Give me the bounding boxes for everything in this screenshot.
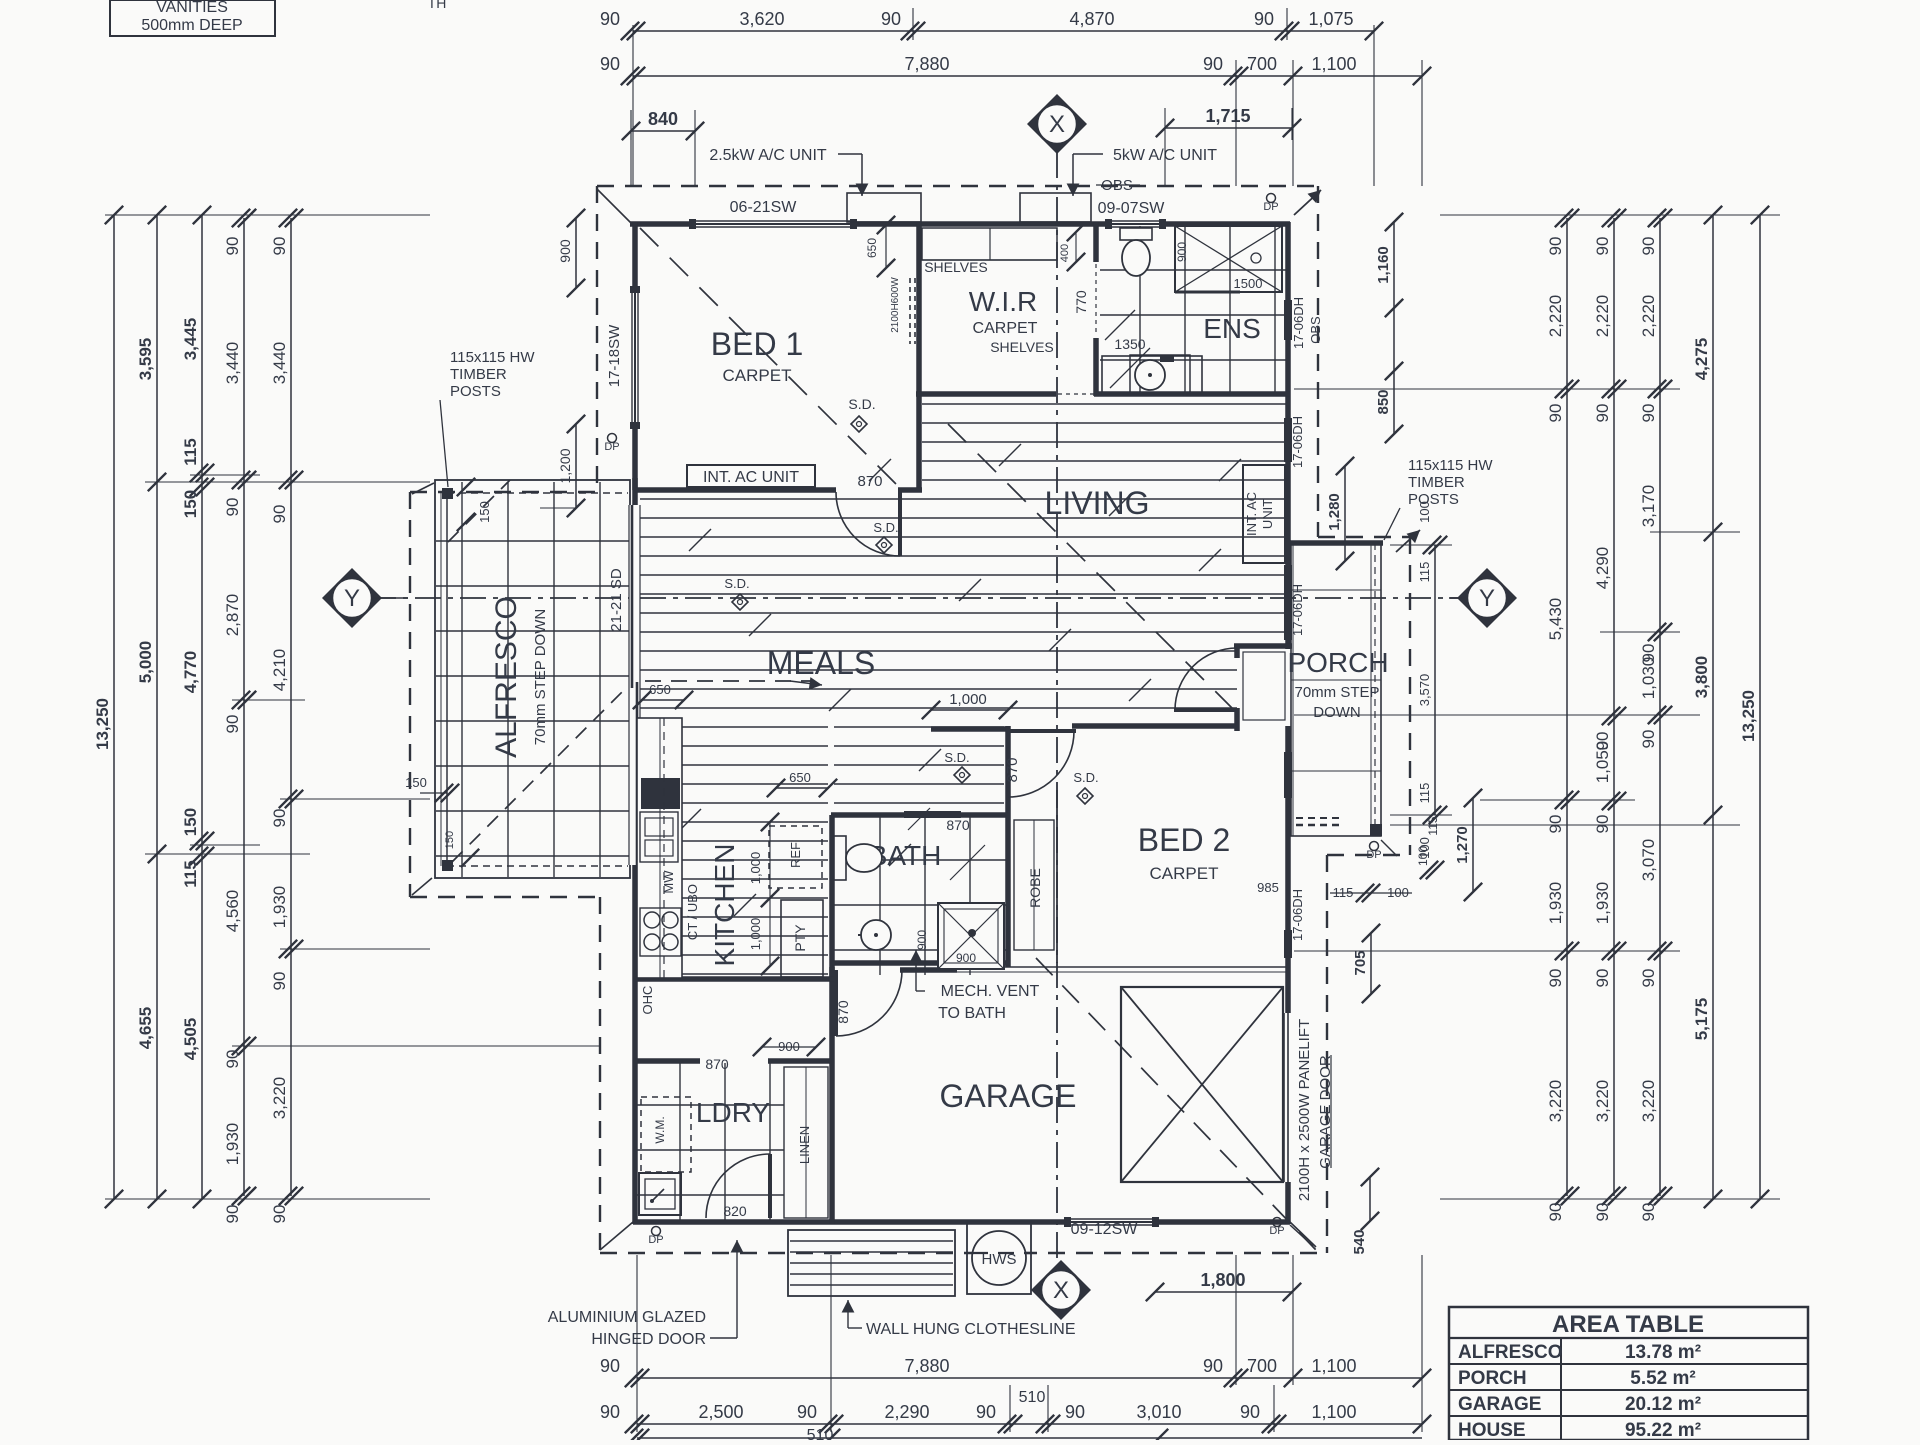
- wall left meals-kitchen-ldry: [632, 478, 638, 1224]
- svg-text:W.M.: W.M.: [653, 1116, 667, 1143]
- dp top right: [1267, 194, 1276, 203]
- wall right upper: [1285, 222, 1291, 543]
- svg-text:WALL HUNG CLOTHESLINE: WALL HUNG CLOTHESLINE: [866, 1321, 1076, 1338]
- svg-text:90: 90: [1203, 1356, 1223, 1376]
- meals bulkhead dashed: [645, 680, 814, 682]
- bottom dim row1: [637, 1377, 1422, 1379]
- bath tile grid: [834, 817, 1006, 975]
- svg-text:AREA TABLE: AREA TABLE: [1552, 1311, 1704, 1338]
- svg-text:90: 90: [1240, 1402, 1260, 1422]
- wall bath west / garage west: [829, 815, 835, 981]
- living diagonal dashed: [948, 424, 1233, 709]
- left dim col1 13250: [113, 215, 115, 1199]
- clothesline: [788, 1230, 955, 1296]
- right 1280 dim: [1344, 466, 1346, 561]
- svg-text:985: 985: [1257, 880, 1279, 895]
- svg-text:3,070: 3,070: [1639, 839, 1658, 882]
- ens vanity: [1102, 356, 1202, 394]
- svg-text:5,175: 5,175: [1692, 998, 1711, 1041]
- svg-text:90: 90: [270, 972, 289, 991]
- svg-text:4,275: 4,275: [1692, 338, 1711, 381]
- svg-text:1500: 1500: [1234, 276, 1263, 291]
- alfresco roof diagonal 2: [448, 480, 510, 542]
- svg-text:90: 90: [223, 1205, 242, 1224]
- alfresco grid: [436, 482, 629, 877]
- svg-text:100: 100: [1417, 501, 1432, 523]
- window 09-07SW: [1107, 220, 1164, 228]
- wall right living recess: [1285, 540, 1291, 649]
- svg-text:POSTS: POSTS: [1408, 491, 1459, 508]
- section marker Y right: [1457, 568, 1517, 628]
- svg-text:4,770: 4,770: [181, 651, 200, 694]
- garage roof diagonal solid: [1290, 1225, 1313, 1246]
- svg-text:1,930: 1,930: [223, 1123, 242, 1166]
- svg-text:3,570: 3,570: [1417, 674, 1432, 707]
- svg-text:MECH. VENT: MECH. VENT: [941, 983, 1040, 1000]
- window living 17-06DH: [1284, 418, 1292, 462]
- svg-text:17-06DH: 17-06DH: [1290, 584, 1305, 636]
- svg-text:2100H600W: 2100H600W: [890, 277, 901, 333]
- svg-text:4,655: 4,655: [136, 1007, 155, 1050]
- top dim row2: [633, 75, 1422, 77]
- svg-text:BED 2: BED 2: [1138, 822, 1230, 858]
- svg-text:100: 100: [1416, 846, 1430, 866]
- top dim row1: [633, 30, 1374, 32]
- svg-text:90: 90: [1593, 404, 1612, 423]
- svg-text:70mm STEP DOWN: 70mm STEP DOWN: [532, 609, 549, 745]
- svg-text:90: 90: [270, 809, 289, 828]
- svg-text:REF: REF: [788, 842, 803, 868]
- svg-text:TO BATH: TO BATH: [938, 1005, 1006, 1022]
- svg-text:09-12SW: 09-12SW: [1071, 1221, 1139, 1238]
- dp porch: [1370, 842, 1379, 851]
- wall garage west: [829, 967, 835, 1224]
- svg-text:3,220: 3,220: [1546, 1080, 1565, 1123]
- svg-text:DP: DP: [604, 441, 619, 453]
- svg-text:Y: Y: [1479, 585, 1495, 612]
- ldry tile grid: [637, 1063, 784, 1220]
- svg-text:115x115 HW: 115x115 HW: [450, 349, 535, 366]
- bottom extension lines: [637, 1255, 1422, 1432]
- wall bed2-robe west: [1005, 726, 1011, 815]
- svg-text:S.D.: S.D.: [873, 520, 898, 535]
- bed1 int ac unit box: [687, 465, 815, 487]
- kitchen bench: [637, 718, 682, 978]
- svg-text:06-21SW: 06-21SW: [730, 199, 798, 216]
- wall bed2 top: [1072, 723, 1237, 729]
- svg-text:TH: TH: [428, 0, 447, 11]
- left 900 dim: [575, 218, 577, 288]
- svg-text:1,000: 1,000: [748, 852, 763, 885]
- svg-text:ENS: ENS: [1203, 313, 1261, 344]
- svg-text:90: 90: [1546, 969, 1565, 988]
- bed1 diagonal dashed: [640, 228, 898, 486]
- svg-text:1,000: 1,000: [949, 691, 987, 708]
- svg-text:90: 90: [223, 237, 242, 256]
- svg-text:90: 90: [1593, 237, 1612, 256]
- right 705 dim: [1370, 933, 1372, 994]
- ac unit 5kW box: [1020, 193, 1091, 222]
- svg-text:3,010: 3,010: [1136, 1402, 1181, 1422]
- svg-text:4,505: 4,505: [181, 1018, 200, 1061]
- svg-text:900: 900: [956, 951, 976, 965]
- window ens 17-06DH: [1284, 300, 1292, 340]
- svg-text:09-07SW: 09-07SW: [1098, 200, 1166, 217]
- svg-text:4,290: 4,290: [1593, 547, 1612, 590]
- roof corner marks: [412, 189, 1420, 1250]
- bottom dim row3 partial: [637, 1437, 1422, 1439]
- svg-text:1,270: 1,270: [1454, 826, 1471, 864]
- svg-text:HINGED DOOR: HINGED DOOR: [591, 1331, 706, 1348]
- svg-text:1,200: 1,200: [557, 448, 573, 483]
- wall kitchen south: [635, 976, 836, 982]
- wall top exterior: [630, 221, 1290, 227]
- area table: [1449, 1307, 1808, 1441]
- window 06-21SW: [691, 220, 855, 228]
- svg-text:115: 115: [1417, 783, 1432, 804]
- svg-text:1,000: 1,000: [748, 918, 763, 951]
- svg-text:5,430: 5,430: [1546, 598, 1565, 641]
- svg-text:500mm DEEP: 500mm DEEP: [141, 17, 242, 34]
- svg-text:90: 90: [1593, 815, 1612, 834]
- dp left: [608, 434, 617, 443]
- svg-text:90: 90: [797, 1402, 817, 1422]
- svg-text:Y: Y: [344, 585, 360, 612]
- garage door opening: [1285, 1013, 1291, 1182]
- svg-text:4,870: 4,870: [1069, 9, 1114, 29]
- bath toilet: [834, 836, 846, 880]
- porch post: [1370, 824, 1382, 836]
- svg-text:90: 90: [1593, 1203, 1612, 1222]
- wall left bed1: [632, 222, 638, 490]
- wall right bed2: [1285, 726, 1291, 1224]
- left dim col2: [156, 215, 158, 1199]
- svg-text:95.22 m²: 95.22 m²: [1625, 1420, 1701, 1440]
- svg-text:1350: 1350: [1114, 336, 1145, 352]
- svg-text:150: 150: [181, 808, 200, 836]
- kitchen dash vert: [663, 718, 665, 978]
- wall hall stub: [931, 726, 1010, 732]
- floorboard break marks: [649, 444, 1241, 916]
- svg-text:PORCH: PORCH: [1458, 1368, 1527, 1389]
- svg-text:X: X: [1049, 111, 1065, 138]
- svg-text:BED 1: BED 1: [711, 326, 803, 362]
- svg-text:INT. AC UNIT: INT. AC UNIT: [703, 469, 799, 486]
- svg-text:3,445: 3,445: [181, 318, 200, 361]
- svg-text:90: 90: [600, 9, 620, 29]
- svg-text:115: 115: [181, 438, 200, 465]
- section marker Y left: [322, 568, 382, 628]
- svg-text:POSTS: POSTS: [450, 383, 501, 400]
- meals 1000 dim: [931, 709, 1008, 711]
- svg-text:MEALS: MEALS: [767, 645, 875, 681]
- svg-text:700: 700: [1247, 1356, 1277, 1376]
- right dim colE: [1759, 215, 1761, 1199]
- svg-text:705: 705: [1352, 950, 1369, 975]
- bottom dim row2: [637, 1423, 1422, 1425]
- door bath cavity: [904, 811, 961, 818]
- garage roof diagonal dashed: [1036, 958, 1316, 1250]
- robe: [1014, 820, 1054, 950]
- alfresco roof diagonal: [452, 686, 628, 862]
- window living2 17-06DH: [1284, 565, 1292, 640]
- svg-text:1,100: 1,100: [1311, 54, 1356, 74]
- svg-text:90: 90: [1254, 9, 1274, 29]
- svg-text:ALUMINIUM GLAZED: ALUMINIUM GLAZED: [548, 1309, 706, 1326]
- svg-text:7,880: 7,880: [904, 54, 949, 74]
- door front porch: [1175, 648, 1237, 710]
- ens toilet: [1120, 228, 1152, 240]
- right dim colD: [1712, 215, 1714, 1199]
- svg-text:17-06DH: 17-06DH: [1290, 889, 1305, 941]
- wall bath-robe south: [832, 960, 1010, 966]
- window 09-12SW: [1066, 1218, 1157, 1226]
- section marker X top: [1027, 94, 1087, 154]
- sliding door 21-21SD: [629, 505, 639, 865]
- right 3570 dim: [1434, 545, 1436, 815]
- floorboard hatch: [640, 404, 1288, 974]
- svg-text:90: 90: [270, 505, 289, 524]
- svg-text:870: 870: [857, 473, 882, 490]
- svg-text:90: 90: [1546, 404, 1565, 423]
- svg-text:DP: DP: [1263, 201, 1278, 213]
- svg-text:1,930: 1,930: [270, 886, 289, 929]
- svg-text:90: 90: [1546, 237, 1565, 256]
- meals 650 dim: [642, 699, 684, 701]
- wall porch north: [1290, 540, 1383, 546]
- svg-text:LIVING: LIVING: [1045, 485, 1150, 521]
- wir shelf right: [1130, 355, 1190, 394]
- svg-text:870: 870: [835, 1000, 851, 1024]
- ldry tub: [639, 1173, 681, 1215]
- svg-text:90: 90: [270, 237, 289, 256]
- svg-text:150: 150: [477, 501, 492, 523]
- dp bottom right: [1273, 1218, 1282, 1227]
- svg-text:150: 150: [444, 831, 456, 849]
- wall wir-ens divider: [1093, 222, 1099, 262]
- wir shelves top: [922, 228, 1057, 260]
- right dim colC: [1659, 218, 1661, 1196]
- svg-text:840: 840: [648, 109, 678, 129]
- garage brace square: [1121, 987, 1283, 1182]
- svg-text:70mm STEP: 70mm STEP: [1294, 684, 1379, 701]
- svg-text:900: 900: [1175, 242, 1189, 262]
- svg-text:510: 510: [807, 1427, 834, 1440]
- left extension lines: [105, 215, 600, 1199]
- svg-text:510: 510: [1019, 1389, 1046, 1406]
- window 17-18SW: [631, 288, 639, 427]
- right 540 dim: [1369, 1177, 1371, 1221]
- wall bottom exterior: [633, 1219, 1290, 1225]
- ens tile grid: [1100, 226, 1286, 392]
- svg-text:17-06DH: 17-06DH: [1291, 297, 1306, 349]
- wall bed1 east: [916, 222, 922, 492]
- svg-text:DP: DP: [648, 1234, 663, 1246]
- svg-text:SHELVES: SHELVES: [990, 339, 1054, 355]
- svg-text:700: 700: [1247, 54, 1277, 74]
- door bed2 870: [1008, 731, 1074, 797]
- svg-text:13,250: 13,250: [1739, 690, 1758, 742]
- svg-text:90: 90: [1593, 969, 1612, 988]
- svg-text:150: 150: [181, 490, 200, 518]
- svg-text:3,440: 3,440: [270, 342, 289, 385]
- bath basin: [861, 920, 891, 950]
- alfresco posts: [442, 488, 453, 871]
- svg-text:2.5kW A/C UNIT: 2.5kW A/C UNIT: [709, 147, 827, 164]
- svg-text:X: X: [1053, 1277, 1069, 1304]
- svg-text:MW: MW: [661, 870, 676, 894]
- wall robe-bed2 divider: [1005, 815, 1011, 967]
- svg-text:5,000: 5,000: [136, 641, 155, 684]
- door bed1 870: [836, 492, 900, 556]
- door ens dashed opening: [1095, 264, 1097, 336]
- svg-text:20.12 m²: 20.12 m²: [1625, 1394, 1701, 1415]
- svg-text:3,800: 3,800: [1692, 656, 1711, 699]
- wall garage north stub: [900, 967, 957, 973]
- svg-text:5.52 m²: 5.52 m²: [1630, 1368, 1695, 1389]
- svg-text:820: 820: [723, 1203, 747, 1219]
- svg-text:4,560: 4,560: [223, 890, 242, 933]
- right extension lines: [1294, 215, 1780, 1199]
- svg-text:90: 90: [976, 1402, 996, 1422]
- svg-text:TIMBER: TIMBER: [450, 366, 507, 383]
- svg-text:13,250: 13,250: [93, 698, 112, 750]
- svg-text:GARAGE: GARAGE: [940, 1078, 1077, 1114]
- ens shower: [1175, 226, 1282, 292]
- svg-text:DOWN: DOWN: [1313, 704, 1361, 721]
- porch dashes bottom: [1296, 824, 1340, 827]
- svg-text:90: 90: [223, 498, 242, 517]
- section line X-X: [1056, 152, 1058, 1262]
- svg-text:1,100: 1,100: [1311, 1402, 1356, 1422]
- svg-text:115x115 HW: 115x115 HW: [1408, 457, 1493, 474]
- svg-text:1,930: 1,930: [1593, 882, 1612, 925]
- kitchen pantry: [781, 900, 823, 977]
- alfresco inner dashed edge: [441, 493, 628, 866]
- svg-text:90: 90: [1546, 815, 1565, 834]
- svg-text:GARAGE: GARAGE: [1458, 1394, 1541, 1415]
- section marker X bottom: [1031, 1260, 1091, 1320]
- svg-text:90: 90: [1546, 1203, 1565, 1222]
- right ext porch: [1390, 544, 1452, 546]
- svg-text:90: 90: [1639, 404, 1658, 423]
- right dim colB: [1613, 218, 1615, 1196]
- svg-text:VANITIES: VANITIES: [156, 0, 228, 16]
- alfresco deck outline: [435, 480, 630, 878]
- svg-text:400: 400: [1059, 244, 1071, 262]
- svg-text:115: 115: [1426, 816, 1440, 835]
- bed1 wir window dashed: [909, 278, 911, 344]
- svg-text:650: 650: [865, 238, 879, 258]
- roof outline dashed: [410, 186, 1410, 1253]
- svg-text:540: 540: [1351, 1229, 1368, 1254]
- hws: [967, 1221, 1031, 1294]
- kitchen sink: [640, 812, 678, 862]
- svg-text:90: 90: [1203, 54, 1223, 74]
- svg-text:870: 870: [1004, 757, 1021, 782]
- svg-text:2,500: 2,500: [698, 1402, 743, 1422]
- svg-text:3,170: 3,170: [1639, 485, 1658, 528]
- svg-text:S.D.: S.D.: [724, 576, 749, 591]
- svg-text:2,220: 2,220: [1546, 295, 1565, 338]
- svg-text:PTY: PTY: [792, 924, 808, 952]
- svg-text:3,220: 3,220: [1639, 1080, 1658, 1123]
- kitchen dark appliance: [641, 778, 680, 809]
- garage 1800 dim: [1155, 1291, 1292, 1293]
- svg-text:LDRY: LDRY: [696, 1097, 771, 1128]
- svg-text:2,290: 2,290: [884, 1402, 929, 1422]
- left 1200 dim: [575, 424, 577, 508]
- kitchen 650 dim: [776, 787, 828, 789]
- svg-text:90: 90: [600, 1402, 620, 1422]
- svg-text:1,075: 1,075: [1308, 9, 1353, 29]
- svg-text:4,210: 4,210: [270, 649, 289, 692]
- svg-text:ALFRESCO: ALFRESCO: [1458, 1342, 1563, 1363]
- svg-text:OBS: OBS: [1308, 316, 1323, 344]
- svg-text:1,280: 1,280: [1326, 493, 1343, 531]
- ldry linen: [784, 1067, 828, 1218]
- svg-text:SHELVES: SHELVES: [924, 259, 988, 275]
- svg-text:CARPET: CARPET: [723, 366, 792, 385]
- left dim col3: [201, 215, 203, 1199]
- svg-text:ROBE: ROBE: [1027, 868, 1043, 908]
- svg-text:650: 650: [649, 682, 671, 697]
- svg-text:2,870: 2,870: [223, 594, 242, 637]
- svg-text:1,160: 1,160: [1375, 246, 1392, 284]
- svg-text:OHC: OHC: [640, 986, 655, 1015]
- svg-text:DP: DP: [1366, 849, 1381, 861]
- wall wir-ens south: [916, 391, 1056, 397]
- living int ac unit: [1243, 465, 1285, 563]
- svg-text:21-21 SD: 21-21 SD: [608, 568, 625, 632]
- svg-text:PORCH: PORCH: [1287, 647, 1388, 678]
- section line Y-Y: [370, 597, 1462, 599]
- svg-text:1,030: 1,030: [1639, 657, 1658, 700]
- svg-text:W.I.R: W.I.R: [969, 286, 1037, 317]
- dp bottom left: [652, 1227, 661, 1236]
- svg-text:13.78 m²: 13.78 m²: [1625, 1342, 1701, 1363]
- svg-text:3,220: 3,220: [1593, 1080, 1612, 1123]
- window bed2 17-06DH upper: [1284, 752, 1292, 798]
- bath shower: [938, 903, 1004, 969]
- svg-text:90: 90: [1639, 237, 1658, 256]
- svg-text:17-18SW: 17-18SW: [606, 324, 623, 387]
- garage north floor line: [957, 966, 1286, 968]
- svg-text:1,050: 1,050: [1593, 741, 1612, 784]
- svg-text:S.D.: S.D.: [1073, 770, 1098, 785]
- svg-text:90: 90: [1065, 1402, 1085, 1422]
- kitchen cooktop: [640, 908, 681, 956]
- svg-text:UNIT: UNIT: [1260, 499, 1275, 529]
- svg-text:TIMBER: TIMBER: [1408, 474, 1465, 491]
- wall bed1 south: [635, 487, 836, 493]
- svg-text:90: 90: [1639, 730, 1658, 749]
- svg-text:17-06DH: 17-06DH: [1290, 416, 1305, 468]
- svg-text:3,595: 3,595: [136, 338, 155, 381]
- svg-text:3,220: 3,220: [270, 1077, 289, 1120]
- svg-text:90: 90: [270, 1205, 289, 1224]
- svg-text:7,880: 7,880: [904, 1356, 949, 1376]
- left dim col5: [290, 218, 292, 1196]
- svg-text:2,220: 2,220: [1593, 295, 1612, 338]
- svg-text:CARPET: CARPET: [973, 320, 1038, 337]
- svg-text:S.D.: S.D.: [848, 396, 875, 412]
- ac unit 2.5kW box: [847, 193, 921, 222]
- door ldry 820: [706, 1154, 770, 1218]
- ldry wm dashed: [641, 1097, 691, 1172]
- svg-text:INT. AC: INT. AC: [1244, 492, 1259, 536]
- top dim 1715: [1165, 127, 1292, 129]
